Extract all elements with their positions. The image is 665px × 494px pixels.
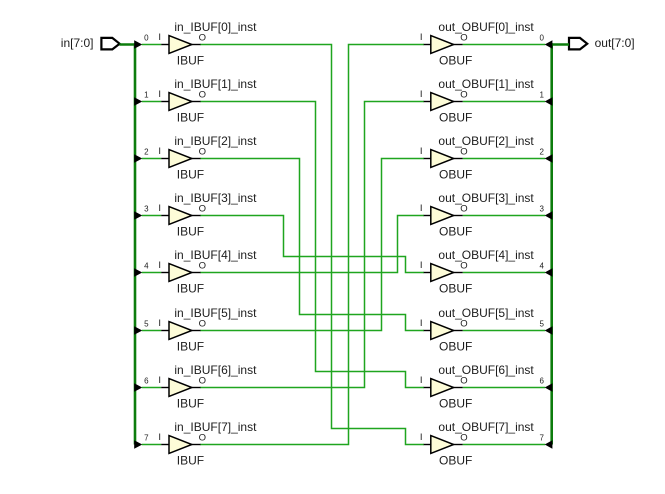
wire net in[4]_IBUF : in_IBUF[4]_inst O to out_OBUF[3]_inst I	[201, 216, 424, 273]
svg-text:I: I	[158, 318, 161, 329]
svg-text:I: I	[420, 260, 423, 271]
bus ripper arrow in[6]	[134, 383, 142, 392]
port in[7:0]	[101, 38, 119, 50]
bus ripper arrow in[3]	[134, 211, 142, 220]
svg-text:O: O	[199, 90, 206, 101]
svg-text:O: O	[199, 376, 206, 387]
svg-text:out_OBUF[5]_inst: out_OBUF[5]_inst	[438, 306, 534, 320]
wire net in[5]_IBUF : in_IBUF[5]_inst O to out_OBUF[2]_inst I	[201, 159, 424, 331]
svg-text:IBUF: IBUF	[177, 454, 204, 468]
buffer out_OBUF[0]_inst	[423, 36, 463, 54]
bus ripper arrow in[2]	[134, 154, 142, 163]
svg-text:out_OBUF[7]_inst: out_OBUF[7]_inst	[438, 420, 534, 434]
svg-text:6: 6	[144, 377, 149, 386]
buffer out_OBUF[2]_inst	[423, 150, 463, 168]
svg-text:I: I	[420, 432, 423, 443]
svg-text:O: O	[460, 261, 467, 272]
svg-text:3: 3	[539, 205, 544, 214]
bus ripper arrow in[1]	[134, 97, 142, 106]
svg-text:O: O	[199, 261, 206, 272]
svg-text:6: 6	[539, 377, 544, 386]
svg-text:3: 3	[144, 205, 149, 214]
svg-text:in_IBUF[2]_inst: in_IBUF[2]_inst	[174, 134, 257, 148]
svg-text:IBUF: IBUF	[177, 397, 204, 411]
svg-text:in_IBUF[1]_inst: in_IBUF[1]_inst	[174, 77, 257, 91]
svg-text:O: O	[199, 204, 206, 215]
svg-text:out_OBUF[4]_inst: out_OBUF[4]_inst	[438, 248, 534, 262]
svg-text:5: 5	[539, 320, 544, 329]
buffer out_OBUF[5]_inst	[423, 322, 463, 340]
wire net in[1]_IBUF : in_IBUF[1]_inst O to out_OBUF[6]_inst I	[201, 102, 424, 388]
svg-text:I: I	[420, 203, 423, 214]
svg-text:IBUF: IBUF	[177, 225, 204, 239]
wire in[7] tap	[142, 444, 161, 446]
bus ripper arrow out[5]	[545, 326, 553, 335]
wire in[0] tap	[142, 44, 161, 46]
wire out_OBUF[0] O to bus	[463, 44, 545, 46]
svg-text:O: O	[460, 147, 467, 158]
wire net in[7]_IBUF : in_IBUF[7]_inst O to out_OBUF[0]_inst I	[201, 45, 424, 445]
bus ripper arrow out[1]	[545, 97, 553, 106]
svg-text:in_IBUF[7]_inst: in_IBUF[7]_inst	[174, 420, 257, 434]
svg-text:I: I	[420, 318, 423, 329]
svg-text:7: 7	[144, 434, 149, 443]
svg-text:OBUF: OBUF	[439, 54, 472, 68]
svg-text:O: O	[199, 147, 206, 158]
wire in[2] tap	[142, 158, 161, 160]
bus ripper arrow in[4]	[134, 268, 142, 277]
svg-text:IBUF: IBUF	[177, 168, 204, 182]
svg-text:I: I	[420, 32, 423, 43]
buffer in_IBUF[2]_inst	[161, 150, 201, 168]
svg-text:OBUF: OBUF	[439, 282, 472, 296]
svg-text:4: 4	[144, 262, 149, 271]
wire out_OBUF[7] O to bus	[463, 444, 545, 446]
svg-text:I: I	[420, 89, 423, 100]
svg-text:OBUF: OBUF	[439, 111, 472, 125]
svg-text:OBUF: OBUF	[439, 225, 472, 239]
svg-text:I: I	[158, 375, 161, 386]
bus in[7:0]	[134, 43, 137, 444]
svg-text:IBUF: IBUF	[177, 111, 204, 125]
wire net in[0]_IBUF : in_IBUF[0]_inst O to out_OBUF[7]_inst I	[201, 45, 424, 445]
svg-text:1: 1	[539, 91, 544, 100]
buffer in_IBUF[7]_inst	[161, 436, 201, 454]
buffer in_IBUF[4]_inst	[161, 264, 201, 282]
svg-text:O: O	[460, 90, 467, 101]
bus ripper arrow out[4]	[545, 268, 553, 277]
bus out[7:0]	[550, 43, 553, 444]
svg-text:IBUF: IBUF	[177, 340, 204, 354]
svg-text:O: O	[199, 433, 206, 444]
buffer out_OBUF[4]_inst	[423, 264, 463, 282]
svg-text:0: 0	[144, 34, 149, 43]
buffer out_OBUF[1]_inst	[423, 93, 463, 111]
bus ripper arrow in[5]	[134, 326, 142, 335]
buffer out_OBUF[3]_inst	[423, 207, 463, 225]
svg-text:0: 0	[539, 34, 544, 43]
svg-text:I: I	[158, 432, 161, 443]
buffer in_IBUF[1]_inst	[161, 93, 201, 111]
svg-text:2: 2	[539, 148, 544, 157]
bus ripper arrow out[2]	[545, 154, 553, 163]
bus ripper arrow out[0]	[545, 40, 553, 49]
svg-text:IBUF: IBUF	[177, 54, 204, 68]
wire in[3] tap	[142, 215, 161, 217]
svg-text:O: O	[460, 204, 467, 215]
svg-text:I: I	[158, 146, 161, 157]
wire in[1] tap	[142, 101, 161, 103]
port out[7:0]	[569, 38, 587, 50]
svg-text:4: 4	[539, 262, 544, 271]
svg-text:in_IBUF[4]_inst: in_IBUF[4]_inst	[174, 248, 257, 262]
svg-text:OBUF: OBUF	[439, 397, 472, 411]
svg-text:out[7:0]: out[7:0]	[595, 36, 635, 50]
svg-text:I: I	[420, 146, 423, 157]
svg-text:OBUF: OBUF	[439, 168, 472, 182]
svg-text:in_IBUF[5]_inst: in_IBUF[5]_inst	[174, 306, 257, 320]
svg-text:out_OBUF[1]_inst: out_OBUF[1]_inst	[438, 77, 534, 91]
svg-text:out_OBUF[0]_inst: out_OBUF[0]_inst	[438, 20, 534, 34]
wire in[4] tap	[142, 272, 161, 274]
wire net in[3]_IBUF : in_IBUF[3]_inst O to out_OBUF[4]_inst I	[201, 216, 424, 273]
wire in[6] tap	[142, 387, 161, 389]
svg-text:I: I	[158, 32, 161, 43]
buffer in_IBUF[0]_inst	[161, 36, 201, 54]
wire out_OBUF[3] O to bus	[463, 215, 545, 217]
svg-text:IBUF: IBUF	[177, 282, 204, 296]
svg-text:O: O	[199, 33, 206, 44]
wire out_OBUF[6] O to bus	[463, 387, 545, 389]
svg-text:OBUF: OBUF	[439, 340, 472, 354]
svg-text:in_IBUF[6]_inst: in_IBUF[6]_inst	[174, 363, 257, 377]
buffer in_IBUF[5]_inst	[161, 322, 201, 340]
svg-text:in_IBUF[0]_inst: in_IBUF[0]_inst	[174, 20, 257, 34]
svg-text:OBUF: OBUF	[439, 454, 472, 468]
wire out_OBUF[4] O to bus	[463, 272, 545, 274]
bus ripper arrow in[7]	[134, 440, 142, 449]
svg-text:1: 1	[144, 91, 149, 100]
wire net in[6]_IBUF : in_IBUF[6]_inst O to out_OBUF[1]_inst I	[201, 102, 424, 388]
buffer out_OBUF[7]_inst	[423, 436, 463, 454]
bus ripper arrow out[6]	[545, 383, 553, 392]
wire in port to bus	[120, 43, 137, 46]
svg-text:in_IBUF[3]_inst: in_IBUF[3]_inst	[174, 191, 257, 205]
svg-text:out_OBUF[6]_inst: out_OBUF[6]_inst	[438, 363, 534, 377]
wire out_OBUF[5] O to bus	[463, 330, 545, 332]
buffer in_IBUF[3]_inst	[161, 207, 201, 225]
wire net in[2]_IBUF : in_IBUF[2]_inst O to out_OBUF[5]_inst I	[201, 159, 424, 331]
bus ripper arrow out[7]	[545, 440, 553, 449]
svg-text:I: I	[158, 260, 161, 271]
svg-text:in[7:0]: in[7:0]	[61, 36, 94, 50]
svg-text:out_OBUF[3]_inst: out_OBUF[3]_inst	[438, 191, 534, 205]
svg-text:7: 7	[539, 434, 544, 443]
bus ripper arrow out[3]	[545, 211, 553, 220]
wire out_OBUF[2] O to bus	[463, 158, 545, 160]
bus ripper arrow in[0]	[134, 40, 142, 49]
svg-text:O: O	[460, 319, 467, 330]
svg-text:2: 2	[144, 148, 149, 157]
buffer out_OBUF[6]_inst	[423, 379, 463, 397]
svg-text:I: I	[158, 203, 161, 214]
wire in[5] tap	[142, 330, 161, 332]
wire out_OBUF[1] O to bus	[463, 101, 545, 103]
wire bus to out port	[550, 43, 569, 46]
svg-text:O: O	[460, 376, 467, 387]
svg-text:out_OBUF[2]_inst: out_OBUF[2]_inst	[438, 134, 534, 148]
svg-text:O: O	[460, 33, 467, 44]
svg-text:5: 5	[144, 320, 149, 329]
svg-text:O: O	[199, 319, 206, 330]
svg-text:O: O	[460, 433, 467, 444]
buffer in_IBUF[6]_inst	[161, 379, 201, 397]
svg-text:I: I	[158, 89, 161, 100]
svg-text:I: I	[420, 375, 423, 386]
